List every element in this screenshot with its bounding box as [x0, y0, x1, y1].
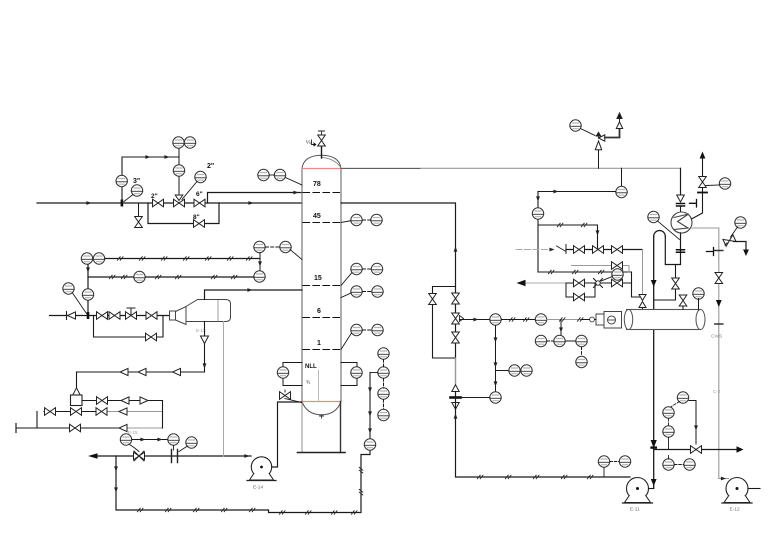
- instrument PG 3in: [131, 185, 142, 196]
- wire: row4 loop: [566, 283, 595, 297]
- wire: manifold line to vessel: [50, 315, 177, 317]
- check valves on header: [120, 368, 128, 375]
- wire: return header y372: [77, 371, 205, 373]
- wire: drum feed gray tail: [547, 319, 596, 321]
- butterfly valve row3: [594, 279, 603, 288]
- letdown control valve: [452, 313, 460, 324]
- svg-text:NLL: NLL: [305, 364, 317, 370]
- vessel internal weld: [217, 301, 219, 322]
- bypass valve: [146, 333, 157, 341]
- instrument FIC E-11: [677, 392, 688, 403]
- column top tangent weld (red): [302, 168, 341, 170]
- svg-text:1: 1: [317, 340, 321, 347]
- reducer up on riser: [452, 385, 459, 392]
- instrument FT: [663, 426, 674, 437]
- instrument PI vent: [719, 178, 730, 189]
- wire: letdown bypass: [433, 287, 456, 359]
- column skirt right: [340, 402, 342, 453]
- instrument pair mid-bottom: [509, 365, 520, 376]
- wire: PSV outlet elbow: [605, 129, 620, 138]
- svg-text:¼: ¼: [306, 140, 311, 146]
- instrument PG left: [63, 283, 74, 294]
- drain valve at column bottom: [285, 390, 302, 403]
- instrument pair below discharge: [663, 459, 674, 470]
- wire: row1: [82, 400, 163, 402]
- svg-text:6": 6": [196, 191, 203, 198]
- svg-text:C-2: C-2: [713, 389, 721, 394]
- node: discharge tee: [650, 446, 657, 448]
- spectacle blind on riser: [451, 396, 461, 399]
- pump E-12: [726, 478, 748, 500]
- node: feed junction: [121, 200, 124, 207]
- wire: vessel drop leg: [204, 322, 206, 372]
- flow arrow near pump: [244, 454, 249, 458]
- wire: feed main line: [37, 202, 302, 204]
- wire: CV outlet to drain: [734, 242, 747, 250]
- reducer to condenser: [677, 195, 685, 202]
- instrument PG: [120, 434, 131, 445]
- instrument pair at column top: [258, 169, 269, 180]
- wire: condenser outlet: [665, 233, 680, 265]
- wire: row1 gray inlet: [516, 249, 548, 251]
- drain tee left: [690, 200, 697, 208]
- vent valve: [699, 177, 707, 188]
- control valve: feed CV with positioner stem: [178, 148, 180, 199]
- valve on drum inlet: [672, 278, 680, 289]
- wire: E-11 stub: [649, 488, 654, 490]
- gate valve 2: [109, 312, 120, 320]
- instrument pair at suction: [598, 456, 609, 467]
- tray 78 dashed line: [303, 192, 340, 194]
- instrument FT: [186, 437, 197, 448]
- wire: TE connector: [182, 182, 197, 200]
- wire: dash-dot link: [547, 340, 554, 342]
- CWS flange ticks: [715, 251, 723, 325]
- flange pair: [677, 204, 685, 207]
- drum shell: [627, 310, 701, 330]
- level gauge right loop: [341, 363, 357, 386]
- svg-text:8": 8": [193, 214, 200, 221]
- vessel E-13 cone: [176, 307, 187, 325]
- wire: line2: [88, 276, 254, 278]
- wire: drum feed continues: [502, 319, 536, 321]
- outlet flange pair: [677, 250, 685, 253]
- wire: condenser CW outlet gray: [692, 227, 719, 229]
- instrument pair FE/FT line1: [81, 253, 92, 264]
- wire: rows collector: [162, 401, 164, 429]
- wire: product export line: [95, 455, 251, 457]
- vessel E-13 body: [186, 300, 231, 322]
- instrument pair tray45 left: [254, 241, 265, 252]
- pump E-11: [627, 478, 649, 500]
- wire: E-11 discharge header: [654, 449, 738, 451]
- wire: condenser vent riser: [692, 159, 703, 220]
- wire: vessel top to column: [205, 290, 303, 300]
- wire: drain drop: [138, 203, 140, 217]
- wire: header y272: [538, 271, 632, 273]
- row4 valve: [574, 293, 585, 301]
- wire: reflux control riser: [537, 192, 539, 273]
- valve: drain vertical: [135, 217, 143, 228]
- flow arrow on loop: [145, 155, 150, 159]
- vessel E-13 nozzle: [170, 311, 176, 320]
- instrument TRC on stem: [173, 165, 184, 176]
- row2 valve: [612, 262, 623, 270]
- tray 45 dashed line: [303, 222, 340, 224]
- column shell left wall: [301, 169, 303, 402]
- wire: overhead downcomer: [680, 168, 682, 194]
- control valve on product line: [134, 452, 145, 460]
- instrument PDI: [612, 269, 623, 280]
- reducer down on riser: [452, 403, 459, 410]
- bypass valve vertical: [429, 294, 437, 305]
- vent reducer and arrow: [616, 122, 622, 129]
- check valve on drop: [201, 336, 209, 344]
- wire: connector to dome: [286, 178, 303, 186]
- wire: 6in riser to column: [208, 193, 303, 204]
- letdown valve upper: [452, 293, 460, 304]
- wire: PG connector: [124, 195, 133, 202]
- wire: E-12 suction gray: [719, 478, 729, 480]
- column skirt left: [301, 402, 303, 453]
- row3 valve: [70, 424, 81, 432]
- wire: side branch to TI pair: [496, 370, 509, 372]
- wire: PDI link: [601, 277, 613, 282]
- wire: TI link to outlet: [658, 221, 680, 240]
- wire: line1: [105, 258, 260, 260]
- flow arrow on feed: [86, 201, 91, 205]
- wire: stack connector: [370, 372, 378, 374]
- instrument TI end of line2: [254, 271, 265, 282]
- reducer up: [73, 388, 80, 395]
- wire: PSV inlet stem: [598, 151, 600, 169]
- wire: drum feed line: [460, 319, 490, 321]
- svg-text:78: 78: [313, 181, 321, 188]
- export arrowhead: [88, 453, 98, 459]
- wire: vent instrument link: [706, 184, 720, 187]
- letdown valve lower: [452, 332, 460, 343]
- svg-text:E-11: E-11: [630, 507, 640, 513]
- svg-text:3": 3": [133, 178, 140, 185]
- vent flange tick: [698, 192, 707, 194]
- tray 1 dashed line: [303, 349, 340, 351]
- drum right head: [696, 310, 705, 330]
- wire: drum inlet stub: [581, 319, 596, 321]
- wire: manifold bypass: [94, 316, 164, 338]
- column base line: [298, 452, 346, 454]
- tray 15 dashed line: [303, 285, 340, 287]
- orifice flanges: [172, 450, 178, 463]
- reducer on manifold: [68, 312, 76, 319]
- row1 check left: [121, 397, 129, 404]
- row1 valve: [97, 397, 108, 405]
- equipment: inline filter box: [71, 395, 83, 406]
- valve 2": [153, 199, 164, 207]
- instrument pair mid: [351, 286, 362, 297]
- valve 8": [194, 220, 205, 228]
- valve 6": [194, 199, 205, 207]
- wire: FT connector: [179, 446, 188, 452]
- wire: FIC loop riser: [689, 401, 696, 445]
- wire: pump suction from column bottoms: [272, 402, 302, 467]
- svg-text:E-12: E-12: [730, 507, 740, 513]
- wire: drum inlet elbow from loop: [654, 265, 676, 301]
- instrument TE 2": [195, 171, 206, 182]
- wire: stub to condenser: [680, 207, 682, 213]
- wire: TI stem: [173, 446, 175, 451]
- instrument on left riser: [82, 289, 93, 300]
- wire: PT drop from overhead: [621, 168, 623, 186]
- wire: gauge line: [132, 439, 168, 441]
- svg-text:E-15: E-15: [128, 430, 138, 435]
- row2 valves: [45, 408, 56, 416]
- wire: PSV instrument link: [581, 129, 596, 136]
- instrument TI on drum feed: [535, 314, 546, 325]
- wire: FI to blind link: [461, 397, 490, 399]
- bottom nozzle tick: [320, 415, 324, 418]
- instrument TI condenser: [648, 211, 659, 222]
- svg-text:6: 6: [317, 308, 321, 315]
- column top dome: [302, 155, 341, 168]
- instrument pair tray15: [351, 263, 362, 274]
- wire: spare header y225: [538, 225, 598, 250]
- level reference line: [318, 370, 320, 401]
- drain tee pair: [707, 248, 714, 256]
- tray 6 dashed line: [303, 317, 340, 319]
- instrument LI: [576, 356, 587, 367]
- instrument LG: [576, 335, 587, 346]
- wire: overhead instrument header: [538, 191, 616, 193]
- instrument pair tray45 right: [351, 214, 362, 225]
- column bottom tangent weld (red): [302, 401, 341, 403]
- wire: left riser: [87, 265, 89, 316]
- instrument stack right of column: [378, 348, 389, 359]
- instrument LT: [554, 335, 565, 346]
- relief valve PSV: [599, 135, 605, 141]
- wire: seal loop drop to pumps: [653, 236, 655, 488]
- vent valve on column top: [321, 147, 323, 158]
- wire: instrument loop riser: [122, 157, 179, 203]
- wire: FIC dashed drop: [671, 402, 680, 408]
- drum left head: [624, 310, 632, 330]
- instrument TI on riser: [364, 439, 375, 450]
- row1 check right: [140, 397, 148, 404]
- wire: row1: [566, 249, 643, 251]
- instrument PIC on riser: [532, 208, 543, 219]
- wire: LT to LG: [566, 340, 576, 342]
- wire: CV actuator link: [130, 445, 140, 452]
- drum inlet distributor box: [604, 312, 622, 329]
- CWS valve: [715, 273, 723, 284]
- wire: row2 drop from row1: [37, 405, 44, 418]
- wire: PG connector: [73, 293, 87, 314]
- svg-text:45: 45: [313, 213, 321, 220]
- flow arrow feed lower: [248, 201, 253, 205]
- instrument FIC on drum feed: [490, 314, 501, 325]
- wire: E-12 discharge stub: [748, 488, 760, 490]
- discharge valve: [691, 446, 702, 454]
- seal loop arc: [654, 231, 666, 237]
- wire: row2: [44, 411, 108, 413]
- heat exchanger condenser: [671, 212, 692, 233]
- node: manifold junction: [87, 312, 90, 319]
- wire: riser lower to pump suction header: [456, 392, 631, 478]
- svg-text:2": 2": [151, 193, 158, 200]
- wire: row3 right drop: [632, 272, 643, 297]
- instrument TW on line2: [134, 271, 145, 282]
- instrument PT overhead: [616, 186, 627, 197]
- instrument FY: [663, 407, 674, 418]
- instrument PI on riser: [116, 175, 127, 186]
- wire: instrument riser right of column: [369, 373, 371, 455]
- instrument LIC: [535, 335, 546, 346]
- wire: 8in bypass loop: [148, 203, 219, 224]
- wire: row3: [524, 282, 566, 284]
- drum PI: [693, 288, 704, 299]
- wire: CWS vertical gray: [718, 228, 720, 479]
- level gauge left loop: [283, 363, 302, 386]
- wire: level branch from drum feed: [560, 320, 562, 336]
- row3 valves: [574, 279, 585, 287]
- wire: row3: [16, 427, 128, 429]
- control valve vent right: [735, 217, 746, 228]
- row1 valves: [574, 246, 585, 254]
- svg-text:2": 2": [207, 163, 214, 170]
- globe valve with handwheel: [127, 308, 135, 316]
- wire: line from column y203 to riser: [341, 203, 456, 389]
- column shell right wall: [340, 169, 342, 402]
- wire: manifold to drum gray drop: [642, 250, 644, 295]
- flow arrow into column: [293, 191, 298, 195]
- instrument PIC at PSV: [570, 120, 581, 131]
- check valve row1: [557, 245, 567, 254]
- wire: vessel drop gray tie-in: [223, 322, 225, 457]
- wire: FIC drop leg: [495, 326, 497, 392]
- wire: line1 to pair connector: [259, 253, 261, 272]
- instrument TI: [168, 434, 179, 445]
- instrument FI bottom: [490, 392, 501, 403]
- svg-text:E-14: E-14: [253, 485, 263, 491]
- wire: LG dashed down: [581, 347, 583, 356]
- drum inlet reducers: [639, 295, 646, 308]
- wire: bottom return header: [116, 455, 370, 513]
- flow arrow into vessel: [170, 314, 175, 318]
- wire: overhead vapour line: [341, 167, 681, 169]
- svg-text:CWS: CWS: [711, 334, 722, 340]
- instrument pair PIA/PIC top: [173, 137, 184, 148]
- wire: header drop to blind: [76, 372, 78, 395]
- pump E-14: [251, 457, 271, 477]
- wire: row2 gray: [572, 265, 630, 267]
- gate valve 3: [146, 312, 157, 320]
- svg-text:15: 15: [314, 275, 322, 282]
- column bottom dish: [302, 402, 341, 415]
- instrument pair tray1: [351, 324, 362, 335]
- gate valve 1: [97, 312, 108, 320]
- drum vent valve: [679, 295, 687, 306]
